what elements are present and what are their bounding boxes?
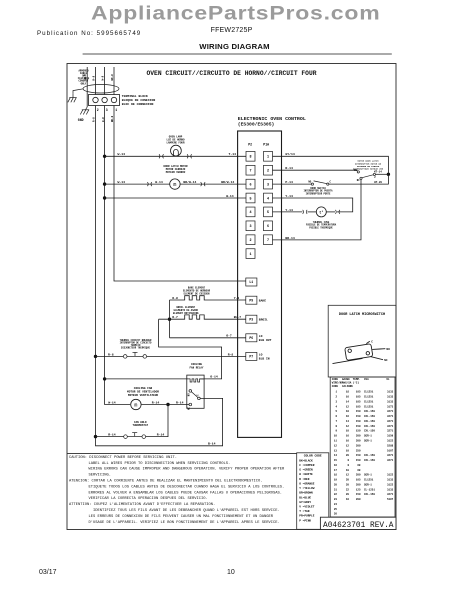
svg-text:3: 3 — [249, 225, 251, 229]
thermal fuse — [316, 207, 326, 217]
svg-text:150: 150 — [356, 493, 361, 496]
svg-text:12: 12 — [334, 444, 338, 447]
svg-text:200: 200 — [356, 435, 361, 438]
svg-text:3122: 3122 — [387, 440, 394, 443]
svg-text:R =RED: R =RED — [299, 478, 309, 481]
svg-text:14: 14 — [346, 420, 350, 423]
color code entries — [299, 459, 314, 522]
svg-text:R-14: R-14 — [108, 433, 116, 437]
svg-text:CL1251: CL1251 — [364, 400, 374, 403]
door latch microswitch box — [328, 305, 396, 377]
svg-text:200: 200 — [356, 483, 361, 486]
svg-text:NC: NC — [384, 359, 388, 362]
door switch label — [304, 187, 334, 196]
svg-text:21: 21 — [334, 488, 338, 491]
thermal circuit breaker label — [120, 339, 152, 350]
wire: supply lead 2 — [95, 67, 97, 95]
svg-text:3133: 3133 — [387, 488, 394, 491]
svg-text:LAMPERE FOUR: LAMPERE FOUR — [166, 142, 185, 145]
svg-text:BLOC DE CONNEXION: BLOC DE CONNEXION — [122, 102, 154, 106]
supply lead labels — [84, 74, 114, 81]
svg-text:ELECTRONIC OVEN CONTROL: ELECTRONIC OVEN CONTROL — [238, 116, 306, 122]
svg-text:B-14: B-14 — [208, 442, 216, 446]
svg-text:DOOR LATCH MICROSWITCH: DOOR LATCH MICROSWITCH — [339, 313, 385, 317]
svg-text:W =WHITE: W =WHITE — [299, 473, 313, 476]
footer page number — [227, 569, 235, 576]
svg-text:G =GREEN: G =GREEN — [299, 469, 313, 472]
svg-text:BR/W-14: BR/W-14 — [221, 180, 234, 184]
svg-text:7: 7 — [335, 420, 337, 423]
wire: door switch row from pin 3 — [273, 183, 312, 185]
connector fuse right — [335, 210, 340, 214]
svg-text:1: 1 — [115, 108, 117, 112]
svg-text:WT-20: WT-20 — [374, 181, 382, 184]
svg-text:24: 24 — [334, 503, 338, 506]
svg-text:3271: 3271 — [387, 415, 394, 418]
door switch — [311, 181, 329, 185]
thermal fuse label — [306, 221, 337, 230]
title underline — [83, 53, 392, 55]
svg-text:8: 8 — [335, 425, 337, 428]
svg-text:23: 23 — [334, 498, 338, 501]
svg-text:CL1251: CL1251 — [364, 396, 374, 399]
wire: relay coil feed — [105, 378, 189, 380]
wire: door switch to latch node — [329, 174, 389, 184]
svg-text:NO: NO — [308, 180, 311, 183]
svg-text:8: 8 — [347, 459, 349, 462]
wire: Y-14 fuse row pin 5 — [273, 211, 303, 213]
svg-text:200: 200 — [356, 498, 361, 501]
svg-text:CL1251: CL1251 — [364, 479, 374, 482]
svg-text:(°C): (°C) — [353, 381, 360, 385]
svg-text:13: 13 — [334, 449, 338, 452]
control output terminals — [246, 278, 257, 360]
svg-text:P7: P7 — [249, 355, 253, 359]
svg-text:INTERRUPTEUR PORTE: INTERRUPTEUR PORTE — [306, 192, 331, 195]
svg-text:CXL-150: CXL-150 — [364, 430, 375, 433]
svg-text:P6: P6 — [249, 336, 253, 340]
svg-text:GND: GND — [78, 118, 84, 122]
svg-text:105: 105 — [356, 396, 361, 399]
svg-text:Y-14: Y-14 — [285, 194, 293, 198]
wire: double line break out — [170, 337, 246, 339]
wire: breaker row — [96, 355, 124, 357]
svg-text:22: 22 — [334, 493, 338, 496]
svg-text:CSA: CSA — [364, 378, 369, 381]
junction fan motor row — [166, 403, 169, 406]
caution text block — [69, 456, 285, 525]
svg-text:C: C — [330, 180, 332, 183]
motor latch switch — [357, 171, 375, 180]
wire: supply ground to cable — [73, 89, 83, 94]
svg-text:200: 200 — [356, 444, 361, 447]
svg-text:R-14: R-14 — [152, 400, 160, 404]
svg-text:CL1251: CL1251 — [364, 391, 374, 394]
footer date — [39, 569, 57, 576]
svg-text:C: C — [371, 341, 373, 344]
svg-text:GN-8: GN-8 — [84, 74, 87, 81]
svg-text:P1A: P1A — [263, 143, 269, 147]
svg-text:V =VIOLET: V =VIOLET — [299, 506, 314, 509]
svg-text:ELEMENT DE CUISSON: ELEMENT DE CUISSON — [184, 292, 210, 295]
svg-text:P2: P2 — [248, 143, 252, 147]
svg-text:COLOR CODE: COLOR CODE — [304, 455, 322, 458]
svg-text:6: 6 — [267, 225, 269, 229]
svg-text:16: 16 — [346, 435, 350, 438]
svg-text:IDENTIFIEZ TOUS LES FILS AVANT: IDENTIFIEZ TOUS LES FILS AVANT DE LES DE… — [93, 508, 280, 513]
svg-text:3133: 3133 — [387, 391, 394, 394]
svg-text:3133: 3133 — [387, 479, 394, 482]
svg-text:150: 150 — [356, 410, 361, 413]
junction neutral row — [103, 196, 106, 199]
svg-text:1: 1 — [249, 253, 251, 257]
svg-text:125: 125 — [356, 488, 361, 491]
wire: fuse lead left — [308, 211, 317, 213]
svg-text:16: 16 — [346, 440, 350, 443]
wire: latch motor row — [105, 183, 246, 185]
svg-text:ATTENTION: COUPEZ L'ALIMENTATI: ATTENTION: COUPEZ L'ALIMENTATION AVANT D… — [69, 502, 215, 507]
svg-text:2: 2 — [374, 176, 376, 179]
control output labels — [259, 299, 272, 360]
svg-text:OVEN CIRCUIT//CIRCUITO DE HORN: OVEN CIRCUIT//CIRCUITO DE HORNO//CIRCUIT… — [147, 70, 317, 77]
svg-text:Y-14: Y-14 — [285, 208, 293, 212]
svg-text:ONLY: ONLY — [81, 82, 87, 85]
wire: lamp row — [105, 155, 246, 157]
svg-text:150: 150 — [356, 454, 361, 457]
svg-text:BR-14: BR-14 — [285, 236, 294, 240]
svg-text:CAUTION: DISCONNECT POWER BEFO: CAUTION: DISCONNECT POWER BEFORE SERVICI… — [69, 456, 177, 460]
svg-text:CL-1251: CL-1251 — [364, 488, 375, 491]
svg-text:NC: NC — [357, 179, 360, 182]
svg-text:CODE: CODE — [332, 385, 339, 388]
svg-text:ETIQUETE TODOS LOS CABLES ANTE: ETIQUETE TODOS LOS CABLES ANTES DE DESCO… — [89, 485, 285, 489]
svg-text:CXL-150: CXL-150 — [364, 420, 375, 423]
svg-text:t°: t° — [319, 211, 323, 216]
wire: bus N (terminal 3) — [104, 106, 106, 379]
svg-text:2: 2 — [267, 170, 269, 174]
svg-text:3271: 3271 — [387, 430, 394, 433]
svg-text:O-8: O-8 — [172, 296, 178, 300]
svg-text:15: 15 — [334, 459, 338, 462]
svg-text:14: 14 — [346, 400, 350, 403]
fan hold thermostat — [124, 433, 146, 439]
svg-text:10: 10 — [334, 435, 338, 438]
svg-text:T-14: T-14 — [229, 152, 237, 156]
svg-text:5: 5 — [249, 197, 251, 201]
svg-text:R-8: R-8 — [108, 352, 114, 356]
svg-text:FUSIBLE THERMIQUE: FUSIBLE THERMIQUE — [309, 226, 333, 229]
svg-text:CXL-150: CXL-150 — [364, 459, 375, 462]
svg-text:6: 6 — [249, 183, 251, 187]
svg-text:5: 5 — [335, 410, 337, 413]
junction latch switch — [387, 173, 390, 176]
svg-text:150: 150 — [356, 459, 361, 462]
svg-text:3271: 3271 — [387, 454, 394, 457]
svg-text:8: 8 — [249, 156, 251, 160]
wire: fuse lead right — [326, 211, 335, 213]
junction relay coil row — [103, 377, 106, 380]
svg-text:Y-8: Y-8 — [234, 296, 240, 300]
svg-text:10: 10 — [346, 430, 350, 433]
svg-text:NO: NO — [386, 348, 390, 351]
wire: bus L1 (terminal 1) to control L1 — [114, 106, 246, 282]
wire: bus N lower to cooling fan — [105, 379, 131, 405]
svg-text:1: 1 — [267, 156, 269, 160]
diagram border frame — [67, 64, 396, 530]
conduit note — [78, 70, 90, 86]
svg-text:GY/14: GY/14 — [285, 152, 294, 156]
svg-text:3271: 3271 — [387, 410, 394, 413]
svg-text:22: 22 — [346, 488, 350, 491]
wire: bake-broil link — [169, 300, 171, 338]
svg-text:20: 20 — [346, 479, 350, 482]
svg-text:20: 20 — [334, 483, 338, 486]
electronic oven control label — [238, 116, 306, 127]
broil element label — [173, 306, 199, 315]
svg-text:20: 20 — [346, 483, 350, 486]
junction breaker row — [94, 355, 97, 358]
cooling fan relay box — [187, 375, 204, 408]
svg-text:105: 105 — [356, 400, 361, 403]
supply cable ellipse — [83, 84, 119, 93]
svg-text:P =PINK: P =PINK — [299, 519, 311, 522]
oven lamp label — [166, 136, 185, 145]
cooling fan motor — [131, 399, 141, 409]
svg-text:4: 4 — [267, 197, 269, 201]
svg-text:BLB IN: BLB IN — [259, 358, 270, 361]
svg-text:5: 5 — [267, 211, 269, 215]
color code box — [297, 453, 329, 530]
svg-text:3122: 3122 — [387, 474, 394, 477]
svg-text:250: 250 — [356, 449, 361, 452]
svg-text:200: 200 — [356, 440, 361, 443]
junction thermostat row — [94, 435, 97, 438]
svg-text:A04623701 REV.A: A04623701 REV.A — [323, 521, 394, 530]
wire: R-14 row from pin 2 — [273, 170, 358, 171]
svg-text:60: 60 — [357, 464, 361, 467]
svg-text:18: 18 — [346, 391, 350, 394]
wire: Y-14 loop pin 4 — [273, 198, 353, 212]
svg-text:2: 2 — [335, 396, 337, 399]
connector motor left — [147, 182, 152, 186]
model number — [211, 27, 253, 34]
svg-text:BK-8: BK-8 — [111, 74, 114, 81]
svg-text:m: m — [173, 182, 176, 188]
svg-text:12: 12 — [346, 474, 350, 477]
svg-text:LES ERREURS DE CONNEXION DE FI: LES ERREURS DE CONNEXION DE FILS PEUVENT… — [89, 515, 274, 519]
svg-text:CXL-150: CXL-150 — [364, 454, 375, 457]
svg-text:3271: 3271 — [387, 420, 394, 423]
svg-text:Y =YELLOW: Y =YELLOW — [299, 487, 314, 490]
fan hold thermostat label — [133, 421, 149, 427]
wire: supply lead 3 — [104, 67, 106, 95]
svg-text:MOTEUR VENTILATEUR: MOTEUR VENTILATEUR — [128, 394, 159, 397]
broil element — [159, 315, 246, 319]
svg-text:CXL-150: CXL-150 — [364, 493, 375, 496]
door latch motor label — [163, 165, 188, 174]
svg-text:P-14: P-14 — [285, 180, 293, 184]
svg-text:R-14: R-14 — [157, 433, 165, 437]
svg-text:LO: LO — [259, 335, 263, 338]
svg-text:19: 19 — [334, 479, 338, 482]
svg-text:105: 105 — [356, 405, 361, 408]
svg-text:W-14: W-14 — [155, 180, 163, 184]
cooling fan label — [127, 387, 159, 397]
wire: latch switch to junction — [376, 173, 389, 175]
svg-text:8: 8 — [347, 464, 349, 467]
svg-text:SGR-1: SGR-1 — [364, 474, 372, 477]
svg-text:3: 3 — [106, 108, 108, 112]
svg-text:18: 18 — [334, 474, 338, 477]
svg-text:R-8: R-8 — [228, 352, 234, 356]
svg-text:O-14: O-14 — [210, 375, 218, 379]
svg-text:P3: P3 — [249, 317, 253, 321]
oven lamp — [171, 145, 182, 156]
svg-text:R-14: R-14 — [176, 400, 184, 404]
svg-text:3159: 3159 — [387, 435, 394, 438]
svg-text:L1: L1 — [249, 280, 253, 284]
svg-text:C =COPPER: C =COPPER — [299, 464, 314, 467]
wire: supply lead GND — [86, 67, 88, 107]
relay coil — [189, 379, 205, 382]
svg-text:P9: P9 — [249, 298, 253, 302]
svg-text:WT-14: WT-14 — [374, 171, 382, 174]
svg-text:6: 6 — [335, 415, 337, 418]
svg-text:O-7: O-7 — [226, 334, 232, 338]
svg-text:26: 26 — [334, 513, 338, 516]
svg-text:3271: 3271 — [387, 493, 394, 496]
connector P2 pins — [246, 151, 255, 258]
svg-text:14: 14 — [334, 454, 338, 457]
connector lamp left — [159, 154, 164, 158]
svg-text:17: 17 — [334, 469, 338, 472]
svg-text:CXL-150: CXL-150 — [364, 415, 375, 418]
svg-text:BROIL: BROIL — [259, 318, 268, 321]
svg-text:4: 4 — [335, 405, 337, 408]
svg-text:BL=BLUE: BL=BLUE — [299, 496, 311, 499]
wire: GY/14 row from pin 1 — [273, 156, 389, 174]
junction lamp row — [103, 155, 106, 158]
svg-text:BR=BROWN: BR=BROWN — [299, 492, 313, 495]
svg-text:SGR-1: SGR-1 — [364, 435, 372, 438]
svg-text:12: 12 — [346, 444, 350, 447]
svg-text:3: 3 — [267, 183, 269, 187]
svg-text:CALIBRE: CALIBRE — [342, 385, 353, 388]
svg-text:150: 150 — [356, 430, 361, 433]
wire: breaker row right — [147, 355, 246, 357]
svg-text:CXL-150: CXL-150 — [364, 410, 375, 413]
svg-text:150: 150 — [356, 425, 361, 428]
ground (supply) — [68, 94, 77, 103]
svg-text:COOLING FAN: COOLING FAN — [134, 387, 153, 390]
svg-text:150: 150 — [356, 420, 361, 423]
svg-text:3271: 3271 — [387, 425, 394, 428]
wire gauge table rows — [334, 391, 394, 516]
svg-text:3122: 3122 — [387, 483, 394, 486]
svg-text:105: 105 — [356, 479, 361, 482]
svg-text:2: 2 — [249, 239, 251, 243]
wire: supply lead 1 — [113, 67, 115, 95]
thermal circuit breaker — [123, 352, 146, 358]
wire: bus L2 (terminal 2) with relay return loop — [96, 106, 223, 446]
oven control box — [238, 131, 282, 437]
svg-text:7: 7 — [267, 239, 269, 243]
svg-text:16: 16 — [346, 396, 350, 399]
svg-text:VERIFICAR LA CORRECTA OPERACIO: VERIFICAR LA CORRECTA OPERACION DESPUES … — [89, 497, 208, 501]
svg-text:NO: NO — [187, 393, 190, 396]
page title — [161, 42, 308, 51]
svg-text:W-14: W-14 — [118, 152, 126, 156]
svg-text:3271: 3271 — [387, 459, 394, 462]
publication number — [37, 30, 141, 37]
svg-text:5288: 5288 — [387, 444, 394, 447]
wire: neutral row — [105, 197, 246, 199]
connector motor right — [201, 182, 206, 186]
svg-text:AWG/SA: AWG/SA — [342, 381, 352, 385]
svg-text:10: 10 — [346, 469, 350, 472]
svg-text:5107: 5107 — [387, 498, 394, 501]
svg-text:R-8: R-8 — [93, 75, 96, 80]
svg-text:BK=BLACK: BK=BLACK — [299, 459, 313, 462]
svg-text:LABEL ALL WIRES PRIOR TO DISCO: LABEL ALL WIRES PRIOR TO DISCONNECTION W… — [89, 462, 231, 466]
svg-text:CXL-150: CXL-150 — [364, 425, 375, 428]
svg-text:SGR-1: SGR-1 — [364, 440, 372, 443]
relay switch — [189, 390, 200, 406]
connector fuse left — [303, 210, 308, 214]
svg-text:20: 20 — [346, 493, 350, 496]
svg-text:ERRORES AL VOLVER A ENSAMBLAR: ERRORES AL VOLVER A ENSAMBLAR LOS CABLES… — [89, 491, 283, 495]
svg-text:150: 150 — [356, 415, 361, 418]
svg-text:T =TAN: T =TAN — [299, 510, 309, 513]
svg-text:SERVICING.: SERVICING. — [89, 474, 112, 478]
svg-text:12: 12 — [346, 425, 350, 428]
svg-text:5107: 5107 — [387, 449, 394, 452]
relay terminal labels — [187, 393, 199, 410]
svg-text:BLB OUT: BLB OUT — [259, 339, 272, 342]
svg-text:GY=GREY: GY=GREY — [299, 501, 311, 504]
svg-text:ATENCION: CORTAR LA CORRIENTE: ATENCION: CORTAR LA CORRIENTE ANTES DE R… — [69, 480, 263, 484]
svg-text:m: m — [134, 402, 137, 408]
svg-text:105: 105 — [356, 391, 361, 394]
svg-text:WIRING ERRORS CAN CAUSE IMPROP: WIRING ERRORS CAN CAUSE IMPROPER AND DAN… — [89, 468, 286, 472]
svg-text:BAKE: BAKE — [259, 299, 266, 302]
svg-text:16: 16 — [334, 464, 338, 467]
svg-text:60: 60 — [357, 469, 361, 472]
door latch microswitch symbol — [333, 341, 386, 363]
svg-text:3133: 3133 — [387, 396, 394, 399]
svg-text:PR=PURPLE: PR=PURPLE — [299, 515, 314, 518]
svg-text:11: 11 — [334, 440, 338, 443]
bake element — [170, 296, 246, 300]
svg-text:3173: 3173 — [387, 405, 394, 408]
cooling fan relay label — [189, 363, 203, 369]
wire gauge table box — [330, 377, 395, 517]
terminal block label — [122, 94, 156, 106]
svg-text:D'USAGE DE L'APPAREIL. VERIFIE: D'USAGE DE L'APPAREIL. VERIFIEZ LE BON F… — [89, 520, 280, 525]
svg-text:18: 18 — [346, 498, 350, 501]
wire: thermostat row right — [146, 405, 168, 437]
svg-text:FAN RELAY: FAN RELAY — [189, 367, 203, 370]
junction broil row — [168, 318, 171, 321]
svg-text:16: 16 — [346, 415, 350, 418]
svg-text:W-14: W-14 — [108, 400, 116, 404]
header brand text — [91, 2, 380, 25]
terminal block — [89, 95, 120, 106]
svg-text:9: 9 — [335, 430, 337, 433]
wire: element node to fan relay coil — [159, 319, 222, 379]
terminal wire color labels — [93, 115, 115, 122]
svg-text:W-14: W-14 — [118, 180, 126, 184]
